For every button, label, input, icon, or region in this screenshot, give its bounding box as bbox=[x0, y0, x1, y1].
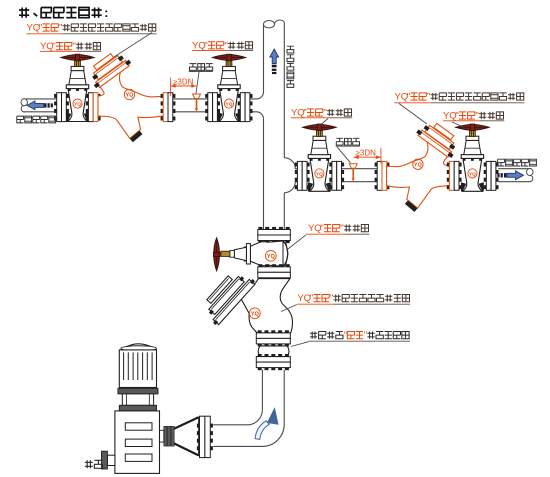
flange pair: gate valve V7 / check valve V8 bbox=[258, 264, 291, 280]
gate valve V3 (body+handwheel) bbox=[212, 54, 246, 121]
gate valve V1 (body+handwheel) bbox=[61, 54, 95, 121]
pump lantern/neck bbox=[118, 388, 158, 411]
svg-text:": " bbox=[341, 223, 344, 234]
svg-text:YQ: YQ bbox=[226, 102, 233, 108]
pipe: left inlet pipe to domestic system bbox=[21, 99, 57, 112]
pipe: right branch from riser to right assembly bbox=[284, 158, 297, 193]
svg-text:": " bbox=[324, 108, 327, 119]
text: to domestic system (left) bbox=[17, 116, 56, 123]
label E: YQ永泉 gate valve (right assembly first) + leader bbox=[291, 108, 352, 125]
rubber joint bellows bbox=[258, 346, 289, 357]
svg-text:YQ: YQ bbox=[126, 93, 135, 99]
svg-text:": " bbox=[476, 111, 479, 122]
svg-text:": " bbox=[303, 108, 306, 119]
label H: YQ永泉 piston slow-closing check valve + leader bbox=[281, 293, 410, 311]
svg-text:YQ: YQ bbox=[74, 102, 81, 108]
svg-text:YQ: YQ bbox=[469, 171, 476, 177]
blue flow arrow left inlet bbox=[27, 101, 53, 110]
flange pair: gate valve V1 / strainer V2 bbox=[86, 93, 101, 122]
pump discharge reducer cone bbox=[174, 417, 199, 455]
pitot tube left (orange) bbox=[193, 94, 201, 111]
pump outlet coupling (gray bars) bbox=[160, 426, 175, 446]
pipe: segment gate valve V4 to strainer V5 bbox=[341, 169, 377, 182]
title: 五、安装示意图: bbox=[19, 5, 108, 20]
flange pair: gate valve V4 / pipe bbox=[329, 161, 344, 190]
label D: YQ永泉 filter piston flow control valve (right) + leader bbox=[395, 92, 525, 124]
dimension: >=3DN (left) bbox=[171, 77, 197, 96]
gate valve V4 (body+handwheel) bbox=[303, 124, 337, 191]
flange pair: pipe / gate valve V3 bbox=[205, 93, 220, 122]
dimension: >=3DN (right) bbox=[354, 148, 381, 163]
label F: YQ永泉 gate valve (right assembly second) + leader bbox=[443, 111, 504, 127]
blue flow arrow right outlet bbox=[497, 171, 523, 180]
text: main pipe direction (vertical) bbox=[287, 46, 294, 87]
svg-text:": " bbox=[59, 23, 62, 34]
flange pair: pump discharge cone / suction pipe bbox=[197, 416, 213, 457]
piston check valve V8 bbox=[207, 276, 293, 333]
label G: YQ永泉 gate valve (bottom) + leader bbox=[288, 223, 369, 249]
svg-text:YQ: YQ bbox=[267, 254, 276, 260]
svg-text:": " bbox=[455, 111, 458, 122]
text: water pump bbox=[85, 460, 103, 468]
pump inlet stub (left, capped) bbox=[102, 451, 115, 469]
svg-text:YQ: YQ bbox=[316, 171, 323, 177]
svg-text:": " bbox=[39, 23, 42, 34]
svg-text:": " bbox=[364, 330, 367, 341]
flange pair: branch pipe / gate valve V4 bbox=[295, 161, 310, 190]
svg-text:": " bbox=[225, 40, 228, 51]
svg-text:": " bbox=[407, 92, 410, 103]
svg-text:≥3DN: ≥3DN bbox=[173, 77, 194, 86]
svg-text::: : bbox=[104, 5, 108, 20]
Y-strainer flow control valve V2 (orange body) bbox=[92, 54, 163, 143]
pipe: drop pipe and elbow to pump suction bbox=[213, 370, 284, 447]
flange pair: riser / gate valve V7 bbox=[258, 227, 291, 243]
svg-text:YQ: YQ bbox=[414, 163, 423, 169]
flange pair: strainer V5 / gate valve V6 bbox=[447, 161, 462, 190]
flange pair: check valve V8 / rubber joint bbox=[256, 330, 290, 346]
blue flow arrow main riser bbox=[270, 49, 279, 74]
svg-text:YQ: YQ bbox=[251, 312, 260, 318]
pipe: main vertical riser bbox=[264, 20, 285, 230]
svg-text:": " bbox=[320, 223, 323, 234]
flange pair: strainer V2 / pipe bbox=[161, 93, 176, 122]
label: pitot tube (left) + leader bbox=[189, 64, 213, 94]
label: pitot tube (right) + leader bbox=[336, 138, 360, 163]
pump body (stage casing) bbox=[115, 411, 160, 474]
svg-text:": " bbox=[73, 41, 76, 52]
flange pair: gate valve V6 / outlet pipe bbox=[484, 161, 499, 190]
flange pair: inlet pipe / gate valve V1 bbox=[54, 93, 69, 122]
svg-text:": " bbox=[204, 40, 207, 51]
svg-text:": " bbox=[427, 92, 430, 103]
svg-text:": " bbox=[344, 330, 347, 341]
gate valve V7 (vertical, side handwheel) bbox=[213, 238, 289, 271]
svg-text:": " bbox=[52, 41, 55, 52]
svg-text:": " bbox=[330, 293, 333, 304]
pipe: right outlet pipe to domestic system bbox=[498, 168, 533, 181]
flange pair: rubber joint / drop pipe bbox=[256, 354, 290, 370]
pitot tube right (orange) bbox=[349, 164, 357, 181]
label A: YQ永泉 filter piston flow control valve (upper left) + leader bbox=[27, 23, 157, 57]
flange pair: pipe / strainer V5 bbox=[375, 161, 390, 190]
Y-strainer flow control valve V5 (orange body) bbox=[387, 123, 456, 212]
blue curved flow arrow in elbow bbox=[255, 408, 278, 439]
label C: YQ永泉 gate valve (second, top) bbox=[192, 40, 253, 51]
text: to domestic system (right) bbox=[498, 159, 537, 166]
svg-text:": " bbox=[310, 293, 313, 304]
pipe: segment from gate valve V3 into main riser (tee) bbox=[250, 92, 264, 119]
label B: YQ永泉 gate valve (left) bbox=[40, 41, 101, 52]
flange pair: gate valve V3 / riser pipe bbox=[238, 93, 253, 122]
pipe: segment between strainer V2 and gate valve V3 bbox=[173, 99, 208, 112]
pump motor (vertical, finned) bbox=[119, 344, 156, 388]
label I: Shanghai Songjiang Jiufeng rubber joint + leader bbox=[291, 330, 410, 346]
gate valve V6 (body+handwheel) bbox=[456, 124, 490, 191]
